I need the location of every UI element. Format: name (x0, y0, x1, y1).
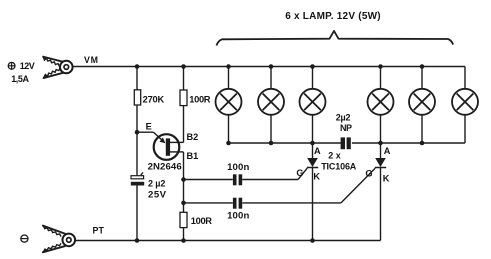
svg-text:A: A (384, 146, 391, 156)
svg-text:100n: 100n (227, 211, 249, 222)
svg-text:TIC106A: TIC106A (321, 162, 357, 172)
svg-text:100R: 100R (191, 216, 212, 226)
svg-text:25V: 25V (148, 189, 167, 200)
svg-text:G: G (296, 168, 303, 178)
svg-text:B1: B1 (187, 151, 199, 161)
svg-text:K: K (383, 174, 390, 184)
svg-text:12V: 12V (20, 61, 35, 71)
svg-text:2 x: 2 x (328, 151, 341, 161)
svg-text:NP: NP (340, 123, 352, 133)
svg-text:270K: 270K (143, 94, 165, 104)
svg-text:2N2646: 2N2646 (148, 162, 182, 173)
svg-text:6 x LAMP. 12V (5W): 6 x LAMP. 12V (5W) (285, 11, 381, 22)
svg-text:1,5A: 1,5A (11, 74, 29, 84)
svg-text:100R: 100R (189, 94, 210, 104)
svg-text:2 µ2: 2 µ2 (148, 179, 165, 189)
svg-text:G: G (365, 169, 372, 179)
svg-text:PT: PT (93, 226, 105, 236)
svg-text:E: E (146, 121, 152, 131)
svg-text:2µ2: 2µ2 (336, 112, 351, 122)
svg-text:100n: 100n (227, 162, 249, 173)
svg-text:VM: VM (84, 55, 99, 65)
svg-text:A: A (314, 146, 321, 156)
svg-text:B2: B2 (187, 132, 199, 142)
svg-text:K: K (313, 172, 320, 182)
